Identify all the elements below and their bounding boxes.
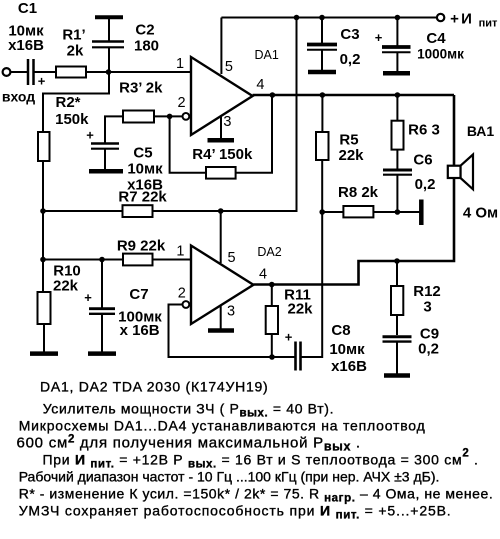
svg-text:R6 3: R6 3 — [408, 122, 440, 139]
capacitor C6 plates — [383, 169, 412, 172]
resistor R5 22k — [316, 132, 329, 160]
svg-text:вход: вход — [2, 89, 35, 105]
capacitor C1 plates — [27, 59, 30, 85]
resistor R4 150k — [206, 167, 236, 179]
wire C7 stem top — [101, 260, 103, 309]
svg-text:C2: C2 — [135, 22, 154, 39]
op-amp DA2 — [191, 246, 254, 325]
svg-text:R12: R12 — [413, 283, 441, 300]
svg-text:4: 4 — [259, 267, 267, 283]
resistor R1 2k — [56, 67, 86, 78]
ground at C9 — [384, 373, 410, 378]
svg-text:22k: 22k — [338, 147, 364, 164]
wire R4 to DA1 output — [236, 95, 272, 173]
ground at C3 — [308, 70, 336, 75]
junction DA1 output / R6 — [395, 92, 401, 98]
wire C3 stem top — [321, 18, 323, 45]
speaker BA1 — [448, 155, 473, 190]
svg-text:1: 1 — [176, 244, 184, 260]
wire C5 stem bottom — [104, 149, 106, 171]
junction supply rail / C4 — [395, 15, 401, 21]
ground at R10 — [30, 351, 58, 356]
resistor R12 3 — [391, 286, 403, 315]
wire bias node to R9 — [43, 259, 123, 261]
wire R1 to DA1 pin 1 — [86, 71, 191, 73]
svg-text:Рабочий диапазон частот - 10 Г: Рабочий диапазон частот - 10 Гц ...100 к… — [19, 469, 440, 485]
svg-text:х16В: х16В — [331, 358, 367, 375]
ground at DA1 pin 3 — [208, 138, 235, 143]
wire R12 to C9 — [396, 315, 398, 335]
svg-text:R7 22k: R7 22k — [118, 189, 167, 206]
svg-text:C3: C3 — [340, 26, 359, 43]
junction bias node / R7 — [40, 208, 46, 214]
capacitor C2 plates — [92, 40, 124, 42]
ground at R8 right — [419, 200, 424, 226]
wire R5 bottom long vertical to C8 — [302, 160, 323, 357]
resistor R7 22k — [123, 205, 153, 217]
svg-text:10мк: 10мк — [329, 341, 365, 358]
junction R7 line / DA2 pin5 — [218, 208, 224, 214]
wire DA2 pin 5 — [220, 211, 222, 263]
svg-text:R1’: R1’ — [62, 27, 85, 44]
svg-text:22k: 22k — [287, 301, 313, 318]
wire C4 stem top — [396, 18, 398, 48]
wire C5 to R3 — [105, 116, 123, 143]
svg-text:10мк: 10мк — [127, 161, 163, 178]
resistor R6 3 — [392, 121, 404, 150]
svg-text:1000мк: 1000мк — [417, 47, 464, 62]
svg-text:C5: C5 — [133, 145, 152, 162]
junction R9 line / C7 — [99, 257, 105, 263]
wire C2 stem top — [108, 18, 110, 42]
svg-text:5: 5 — [225, 59, 233, 75]
capacitor C4 plates — [382, 45, 411, 49]
svg-text:22k: 22k — [53, 278, 79, 295]
svg-text:пит: пит — [479, 18, 498, 30]
capacitor C5 plates — [91, 142, 119, 145]
junction DA2 output / R11 — [269, 282, 275, 288]
resistor R3 2k — [123, 111, 154, 123]
wire C3 stem bottom — [321, 50, 323, 71]
junction speaker return / R12 — [394, 258, 400, 264]
junction bias node / R9 — [40, 257, 46, 263]
wire R3 to DA1 pin 2 — [154, 115, 182, 117]
svg-text:1: 1 — [176, 56, 184, 72]
svg-text:2: 2 — [177, 95, 185, 111]
junction node X R5/R8 — [319, 209, 325, 215]
svg-text:2k: 2k — [67, 43, 84, 60]
wire R6 top stem — [396, 95, 398, 121]
svg-text:0,2: 0,2 — [418, 341, 439, 358]
svg-text:И: И — [461, 11, 472, 28]
svg-text:+: + — [450, 11, 459, 28]
wire supply vertical — [296, 18, 298, 213]
junction DA1 output / R4 — [270, 92, 276, 98]
svg-text:DA1: DA1 — [255, 48, 279, 62]
svg-text:3: 3 — [227, 304, 235, 320]
wire DA2 pin 2 to C8 node — [169, 305, 295, 358]
junction node A (R1/C2/R2/pin1) — [106, 69, 112, 75]
junction DA1 output / R5 — [320, 92, 326, 98]
wire DA1 pin 5 — [220, 18, 222, 75]
svg-text:+: + — [86, 128, 94, 143]
svg-text:3: 3 — [423, 299, 431, 316]
svg-text:х16В: х16В — [8, 37, 44, 54]
wire C6 bottom stem — [396, 176, 398, 213]
wire R7 to supply vertical — [153, 210, 298, 212]
op-amp DA1 — [191, 57, 253, 135]
wire R12 top stem — [396, 261, 398, 286]
svg-text:C6: C6 — [413, 152, 432, 169]
wire DA1 output rail — [253, 94, 454, 97]
svg-text:0,2: 0,2 — [340, 51, 361, 68]
svg-text:3: 3 — [223, 114, 231, 130]
capacitor C3 plates — [307, 43, 337, 47]
junction supply rail / C3 — [319, 15, 325, 21]
wire speaker top drop — [453, 95, 456, 167]
DA1 pin 2 inverting bubble — [183, 113, 190, 120]
wire bias node to R7 — [43, 210, 123, 212]
wire R10 to ground — [43, 324, 45, 352]
svg-text:4 Ом: 4 Ом — [463, 205, 498, 222]
svg-text:+: + — [375, 30, 383, 45]
svg-text:DA1, DA2 TDA 2030 (К174УН19): DA1, DA2 TDA 2030 (К174УН19) — [40, 379, 268, 395]
wire R2 to R10 vertical bias node — [42, 161, 44, 292]
svg-text:ВА1: ВА1 — [467, 123, 495, 139]
wire R9 to DA2 pin 1 — [153, 259, 192, 261]
resistor R11 22k — [266, 306, 278, 334]
svg-text:150k: 150k — [55, 111, 89, 128]
svg-text:180: 180 — [134, 38, 159, 55]
svg-text:C4: C4 — [426, 30, 446, 47]
wire C7 stem bottom — [101, 314, 103, 352]
svg-text:DA2: DA2 — [257, 245, 281, 259]
svg-text:+: + — [38, 74, 46, 89]
wire top supply rail — [221, 17, 437, 19]
svg-text:5: 5 — [228, 250, 236, 266]
svg-text:+: + — [84, 290, 92, 305]
resistor R8 2k — [343, 206, 373, 217]
svg-text:C8: C8 — [331, 322, 350, 339]
capacitor C8 plates — [294, 342, 297, 371]
resistor R2 150k — [38, 132, 50, 161]
junction R8 / C6 — [395, 209, 401, 215]
input terminal — [3, 68, 11, 76]
svg-text:0,2: 0,2 — [415, 176, 436, 193]
svg-text:R5: R5 — [339, 132, 358, 149]
wire R11 top stem — [271, 285, 273, 307]
resistor R10 22k — [38, 292, 51, 324]
svg-text:2: 2 — [178, 286, 186, 302]
resistor R9 22k — [123, 254, 153, 266]
wire C2 stem bottom — [108, 47, 110, 72]
wire DA1 pin 3 — [220, 114, 222, 139]
wire speaker bottom return — [254, 177, 455, 285]
wire R8 to ground bar — [373, 211, 419, 213]
junction DA1 pin2 / R3 / R4 — [167, 114, 173, 120]
svg-text:+: + — [285, 330, 293, 345]
wire DA2 pin 3 — [220, 306, 222, 330]
wire node A to R2 — [43, 72, 109, 132]
svg-text:4: 4 — [256, 77, 264, 93]
svg-text:R3’ 2k: R3’ 2k — [119, 80, 163, 97]
supply terminal + Ипит — [437, 14, 444, 21]
wire C4 stem bottom — [396, 52, 398, 72]
wire node X to R8 — [322, 211, 343, 213]
svg-text:C1: C1 — [18, 0, 37, 17]
svg-text:R8 2k: R8 2k — [338, 184, 379, 201]
wire R6 to C6 — [396, 150, 398, 169]
ground at C5 — [89, 169, 123, 174]
junction R11 bottom / C8 wire — [269, 354, 275, 360]
capacitor C7 plates — [89, 307, 115, 310]
svg-text:x 16В: x 16В — [120, 322, 160, 339]
wire R11 bottom stem — [271, 334, 273, 357]
wire R5 top stem — [321, 95, 323, 132]
svg-text:Микросхемы DA1...DA4 устанавли: Микросхемы DA1...DA4 устанавливаются на … — [19, 418, 426, 434]
svg-text:C7: C7 — [129, 286, 148, 303]
ground at C2 top — [95, 15, 123, 19]
wire C9 bottom stem — [396, 343, 398, 375]
svg-text:R9 22k: R9 22k — [117, 238, 166, 255]
ground at C4 — [383, 71, 410, 76]
DA2 pin 2 inverting bubble — [183, 301, 190, 308]
wire DA1 feedback loop R4 — [170, 116, 206, 172]
svg-text:R2*: R2* — [55, 94, 80, 111]
svg-text:R4’ 150k: R4’ 150k — [192, 146, 253, 163]
ground at DA2 pin 3 — [208, 328, 234, 333]
ground at C7 — [88, 351, 116, 356]
wire C1 to R1 — [34, 71, 56, 73]
wire input to C1 — [10, 71, 27, 73]
capacitor C9 plates — [383, 335, 412, 338]
junction supply rail / supply vertical — [294, 15, 300, 21]
